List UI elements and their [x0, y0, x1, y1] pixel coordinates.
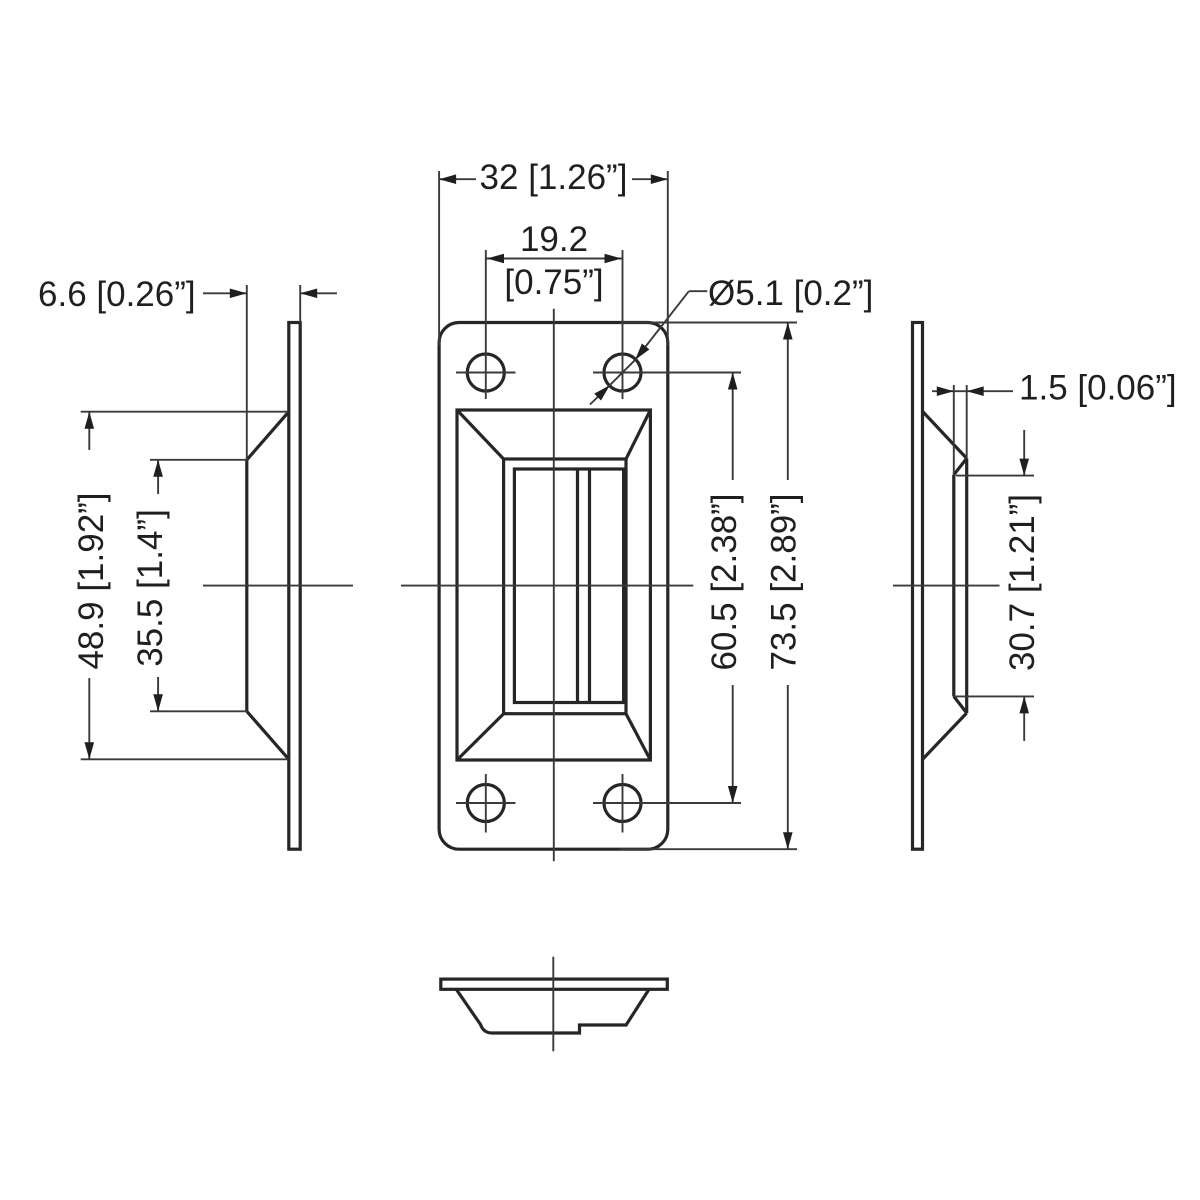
- left view bump face: [245, 460, 248, 712]
- right view outer face: [965, 458, 968, 713]
- svg-text:Ø5.1 [0.2”]: Ø5.1 [0.2”]: [708, 274, 873, 313]
- dim 6.6 extension left: [246, 285, 248, 460]
- front view bevel diagonal top-left: [457, 410, 504, 459]
- dim 32 arrow left: [439, 178, 476, 180]
- dim 6.6 arrow left: [203, 292, 247, 294]
- dim 6.6 extension right: [299, 285, 301, 323]
- front view plate outline: [439, 323, 668, 850]
- leader diameter arrow upper: [635, 291, 689, 360]
- front view vertical centerline: [553, 309, 555, 862]
- dim 73.5 extension top: [620, 322, 797, 324]
- svg-text:6.6 [0.26”]: 6.6 [0.26”]: [38, 275, 196, 314]
- dim 73.5 arrow up: [787, 323, 789, 481]
- dim 1.5 extension left: [953, 385, 955, 475]
- dim 30.7 extension top: [956, 475, 1034, 477]
- front view bevel diagonal bottom-right: [626, 714, 650, 760]
- crosshair+extension horizontal bottom-right hole: [593, 802, 741, 804]
- crosshair horizontal top-left hole: [456, 372, 516, 374]
- right view top chamfer: [954, 458, 967, 474]
- dim 32 arrow right: [632, 178, 668, 180]
- crosshair vertical + 19.2 extension right: [622, 250, 624, 399]
- leader diameter line through hole: [610, 360, 635, 385]
- bottom view plate bar: [441, 979, 668, 989]
- dim 48.9 extension bottom: [81, 758, 289, 760]
- right view inner face: [952, 475, 955, 697]
- dim 60.5 arrow up: [732, 373, 734, 481]
- front view recess step line 2: [588, 469, 591, 703]
- dim 1.5 extension right: [966, 385, 968, 458]
- dim 32 extension line right: [667, 171, 669, 345]
- crosshair horizontal bottom-left hole: [456, 802, 516, 804]
- left view horizontal centerline: [203, 585, 353, 587]
- left view bump top slope: [247, 412, 289, 460]
- dim 6.6 arrow right: [300, 292, 337, 294]
- svg-text:73.5 [2.89”]: 73.5 [2.89”]: [765, 493, 804, 670]
- bottom view vertical centerline: [552, 957, 554, 1052]
- dim 73.5 extension bottom: [620, 848, 797, 850]
- leader diameter 5.1 tick: [689, 290, 707, 292]
- hole top-left: [467, 354, 504, 391]
- crosshair+extension horizontal top-right hole: [593, 372, 741, 374]
- svg-text:48.9 [1.92”]: 48.9 [1.92”]: [72, 492, 111, 669]
- left view plate bar: [289, 323, 300, 850]
- front view bevel diagonal top-right: [626, 410, 650, 459]
- crosshair vertical bottom-right hole: [622, 774, 624, 833]
- hole bottom-left: [467, 785, 504, 822]
- dim 1.5 line between extensions: [954, 390, 967, 392]
- front view bevel diagonal bottom-left: [457, 714, 504, 760]
- dim 1.5 arrow right and lead: [967, 390, 1013, 392]
- right view bump bottom slope: [923, 713, 967, 759]
- dim 35.5 arrow down: [157, 677, 159, 711]
- right view bottom chamfer: [954, 696, 967, 713]
- dim 35.5 extension bottom: [150, 710, 247, 712]
- dim 60.5 arrow down: [732, 685, 734, 803]
- right view plate bar: [913, 323, 923, 850]
- hole bottom-right: [604, 785, 641, 822]
- dim 48.9 arrow up: [88, 412, 90, 450]
- left view bump bottom slope: [247, 711, 289, 759]
- dim 32 extension line left: [438, 171, 440, 345]
- dim 30.7 extension bottom: [953, 695, 1034, 697]
- dim 35.5 extension top: [150, 459, 247, 461]
- dim 73.5 arrow down: [787, 685, 789, 849]
- svg-text:35.5 [1.4”]: 35.5 [1.4”]: [131, 509, 170, 667]
- dim 1.5 arrow left: [932, 390, 954, 392]
- front view horizontal centerline: [401, 585, 693, 587]
- right view bump top slope: [923, 411, 967, 458]
- dim 48.9 arrow down: [88, 678, 90, 759]
- front view recess step line 1: [576, 469, 579, 703]
- svg-text:19.2: 19.2: [520, 220, 588, 259]
- dim 30.7 arrow down (top): [1023, 430, 1025, 476]
- svg-text:[0.75”]: [0.75”]: [504, 263, 603, 302]
- svg-text:60.5 [2.38”]: 60.5 [2.38”]: [705, 493, 744, 670]
- dim 35.5 arrow up: [157, 460, 159, 494]
- crosshair vertical bottom-left hole: [485, 774, 487, 833]
- svg-text:32 [1.26”]: 32 [1.26”]: [480, 158, 628, 197]
- dim 19.2 line with arrows: [486, 258, 623, 260]
- bottom view bump profile: [456, 990, 649, 1034]
- leader diameter arrow lower: [590, 385, 610, 404]
- dim 60.5 extension bottom: [651, 802, 741, 804]
- dim 48.9 extension top: [81, 411, 289, 413]
- right view horizontal centerline: [893, 585, 1000, 587]
- front view outer bevel rectangle: [457, 410, 650, 760]
- svg-text:1.5 [0.06”]: 1.5 [0.06”]: [1019, 369, 1177, 408]
- front view inner bevel rectangle: [504, 459, 626, 714]
- hole top-right: [604, 354, 641, 391]
- svg-text:30.7 [1.21”]: 30.7 [1.21”]: [1003, 494, 1042, 671]
- crosshair vertical + 19.2 extension left: [485, 250, 487, 399]
- dim 30.7 arrow up (bottom): [1023, 696, 1025, 741]
- front view innermost recess rectangle: [514, 469, 623, 703]
